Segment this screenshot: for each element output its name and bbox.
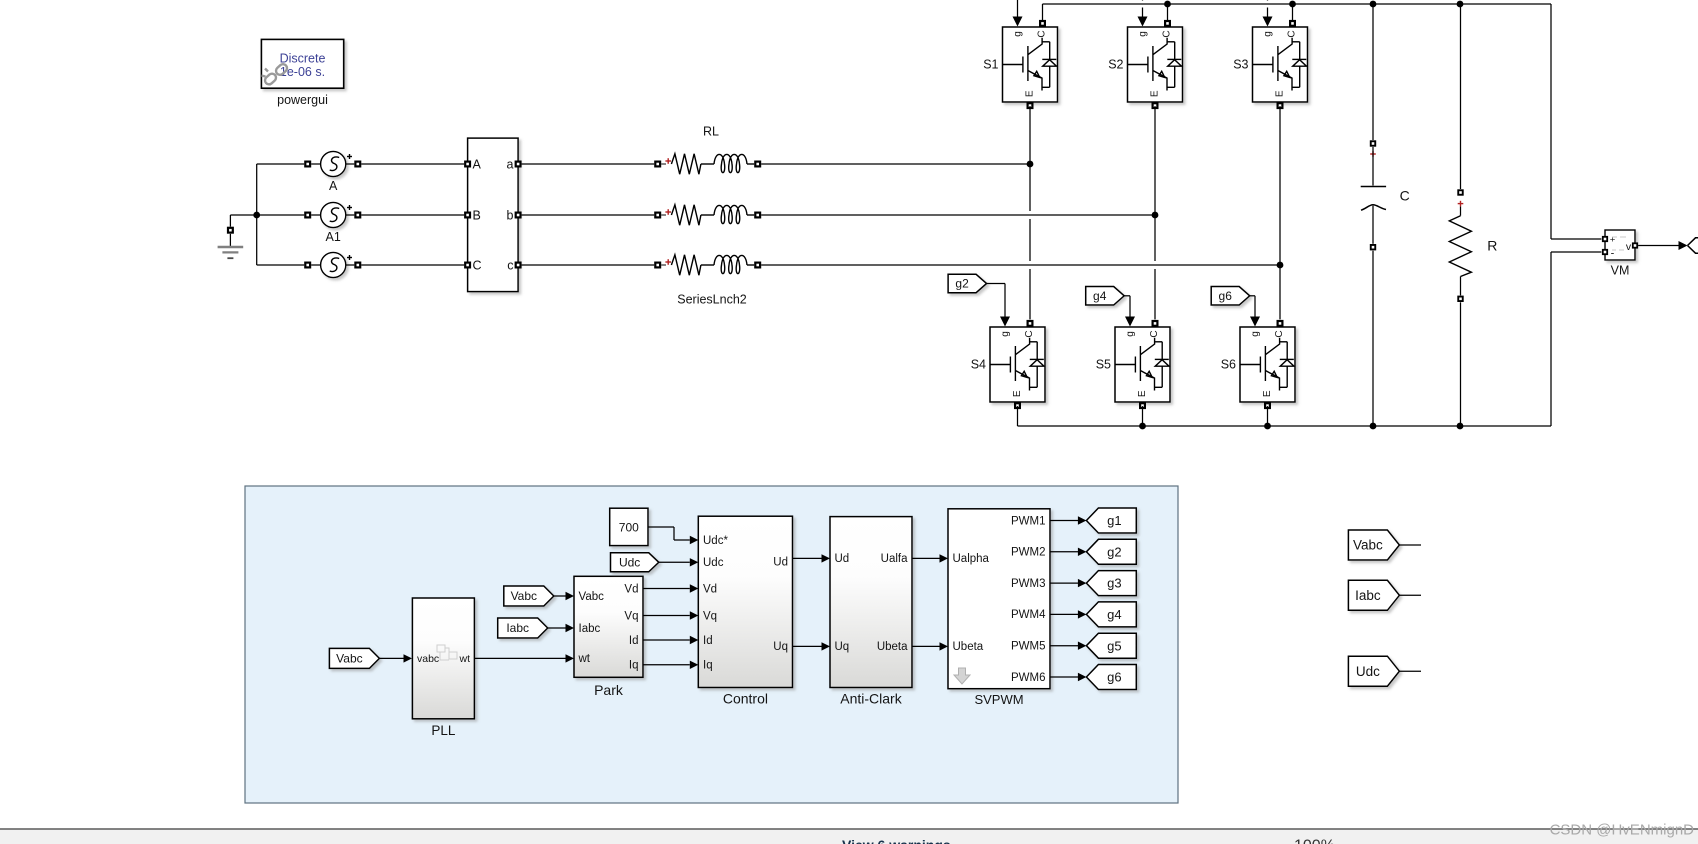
svg-text:SVPWM: SVPWM xyxy=(974,692,1023,707)
svg-text:Ualpha: Ualpha xyxy=(953,553,990,565)
svg-text:a: a xyxy=(507,158,514,172)
svg-text:VM: VM xyxy=(1611,264,1630,278)
svg-text:PWM5: PWM5 xyxy=(1011,641,1046,653)
svg-text:RL: RL xyxy=(703,125,719,139)
svg-text:SeriesLnch2: SeriesLnch2 xyxy=(677,293,747,307)
svg-text:g2: g2 xyxy=(955,277,969,291)
svg-text:Udc: Udc xyxy=(1356,664,1380,679)
svg-text:Vq: Vq xyxy=(624,610,638,622)
svg-text:Id: Id xyxy=(629,635,639,647)
svg-text:Vq: Vq xyxy=(703,610,717,622)
svg-text:B: B xyxy=(473,209,481,223)
svg-text:Vabc: Vabc xyxy=(579,591,605,603)
svg-text:S5: S5 xyxy=(1096,358,1111,372)
svg-text:S1: S1 xyxy=(983,58,998,72)
svg-text:Park: Park xyxy=(594,682,624,698)
svg-text:Udc*: Udc* xyxy=(703,535,728,547)
svg-text:Vd: Vd xyxy=(624,583,638,595)
svg-text:Discrete: Discrete xyxy=(280,52,326,66)
svg-text:S2: S2 xyxy=(1108,58,1123,72)
svg-text:Uq: Uq xyxy=(773,641,788,653)
svg-text:Vabc: Vabc xyxy=(1353,538,1383,553)
svg-text:Iq: Iq xyxy=(703,660,713,672)
svg-text:S4: S4 xyxy=(971,358,986,372)
svg-text:v: v xyxy=(1626,241,1632,253)
svg-text:wt: wt xyxy=(578,653,591,665)
svg-text:PWM6: PWM6 xyxy=(1011,672,1046,684)
svg-text:PWM1: PWM1 xyxy=(1011,515,1046,527)
svg-text:Ud: Ud xyxy=(773,557,788,569)
svg-text:Udc: Udc xyxy=(703,557,724,569)
svg-text:+: + xyxy=(1610,235,1616,246)
svg-text:Iq: Iq xyxy=(629,660,639,672)
svg-text:Iabc: Iabc xyxy=(579,623,601,635)
svg-text:Uq: Uq xyxy=(835,641,850,653)
svg-text:Ubeta: Ubeta xyxy=(877,641,908,653)
svg-text:Udc: Udc xyxy=(619,556,640,570)
svg-text:S6: S6 xyxy=(1221,358,1236,372)
svg-text:Ubeta: Ubeta xyxy=(953,641,984,653)
svg-text:Control: Control xyxy=(723,691,768,707)
svg-text:g3: g3 xyxy=(1107,576,1121,591)
svg-text:g2: g2 xyxy=(1107,544,1121,559)
svg-text:g5: g5 xyxy=(1107,638,1121,653)
svg-text:Iabc: Iabc xyxy=(506,621,529,635)
svg-text:Id: Id xyxy=(703,635,713,647)
svg-text:A1: A1 xyxy=(326,230,341,244)
svg-text:CSDN @HvENmignD: CSDN @HvENmignD xyxy=(1550,822,1695,839)
svg-text:Anti-Clark: Anti-Clark xyxy=(840,691,902,707)
svg-text:A: A xyxy=(329,179,338,193)
svg-text:Vd: Vd xyxy=(703,583,717,595)
svg-text:View 6 warnings: View 6 warnings xyxy=(842,837,951,844)
svg-text:C: C xyxy=(473,259,482,273)
svg-text:wt: wt xyxy=(459,653,471,665)
svg-text:-: - xyxy=(1611,248,1615,260)
svg-text:100%: 100% xyxy=(1294,838,1335,844)
svg-text:g4: g4 xyxy=(1093,289,1107,303)
svg-text:PWM4: PWM4 xyxy=(1011,609,1046,621)
svg-text:PWM2: PWM2 xyxy=(1011,547,1046,559)
svg-text:g6: g6 xyxy=(1219,289,1233,303)
svg-text:PLL: PLL xyxy=(431,723,456,738)
svg-text:Vabc: Vabc xyxy=(511,589,537,603)
svg-text:b: b xyxy=(507,209,514,223)
svg-text:S3: S3 xyxy=(1233,58,1248,72)
svg-text:powergui: powergui xyxy=(277,93,328,107)
svg-text:Vabc: Vabc xyxy=(336,652,362,666)
svg-text:Ud: Ud xyxy=(835,553,850,565)
svg-text:Ualfa: Ualfa xyxy=(881,553,908,565)
svg-text:g4: g4 xyxy=(1107,607,1121,622)
svg-text:Iabc: Iabc xyxy=(1355,588,1381,603)
svg-text:700: 700 xyxy=(619,521,639,535)
svg-text:A: A xyxy=(473,158,482,172)
svg-text:R: R xyxy=(1487,238,1497,254)
svg-text:g1: g1 xyxy=(1107,513,1121,528)
svg-text:C: C xyxy=(1400,188,1410,204)
svg-text:PWM3: PWM3 xyxy=(1011,578,1046,590)
svg-text:vabc: vabc xyxy=(417,653,439,665)
svg-text:c: c xyxy=(507,259,513,273)
svg-text:g6: g6 xyxy=(1107,670,1121,685)
